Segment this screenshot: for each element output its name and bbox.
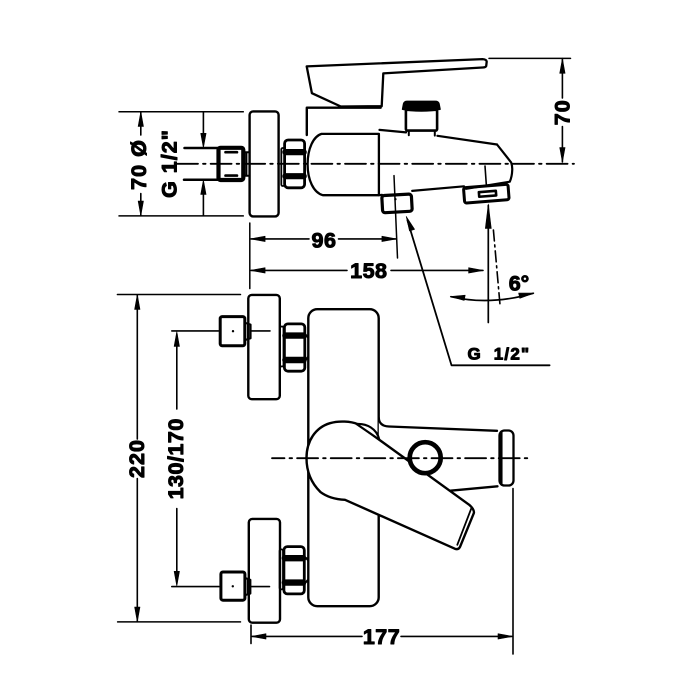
body bottom edge (side view) [379,186,464,195]
dimension 96: extension lines [249,223,251,289]
screw S1: upper eccentric union head [220,317,245,346]
leader for G 1/2 shower outlet [408,221,550,366]
dimension 158: dimension line with arrows [251,269,483,271]
dimension G 1/2 (wall pipe): arrows at pipe [202,112,204,216]
body: cartridge dome (side view) [308,134,379,195]
dimension 177: dimension line with arrows [252,635,512,637]
wire: internal outlet edge above tub boss [485,166,486,184]
dimension 130/170: dimension line with arrows [176,334,178,584]
inlet boss bump behind nut N3 [307,336,313,359]
collar between nut N1 and flange [244,152,250,176]
handle: lever and hub (front view) [307,422,474,550]
dimension 220: extension lines [117,295,240,622]
svg-text:96: 96 [312,229,337,253]
screw S2: lower eccentric union head [221,572,245,600]
svg-text:6°: 6° [509,272,530,296]
dimension 220: dimension line with arrows [136,295,138,622]
foot: shower outlet boss (bold) [382,194,413,213]
diverter knob ring (front view) [410,442,441,473]
svg-text:70 Ø: 70 Ø [127,139,151,190]
svg-text:177: 177 [363,625,400,649]
flange F1: wall escutcheon (side view) [250,111,279,216]
svg-text:G 1/2": G 1/2" [157,129,181,198]
spout end cap (front view) [500,431,514,486]
washer of nut N4 [280,549,283,589]
spout nose (side view) [466,145,512,189]
handle tip end face line [457,509,471,545]
lever handle (side view) [307,59,487,106]
handle rear bump detail [357,424,380,440]
dimension 70 (height): extension line from lever tip [489,57,571,59]
svg-text:220: 220 [125,439,149,478]
dimension 130/170: reference lines [172,331,219,587]
angle arc 6 deg with arrows [451,293,533,300]
svg-text:130/170: 130/170 [164,418,188,499]
dimension 70 dia: extension lines [119,112,243,216]
body: main vertical body plate (front view) [308,309,378,606]
collar of screw S1 [245,323,250,340]
inlet boss bump behind nut N4 [307,558,313,581]
body top edge right of knob to spout [437,136,497,145]
diverter knob black cap (side view) [402,101,440,111]
body: housing top edge (side view) [307,108,381,135]
diverter knob body (side view) [406,110,437,131]
dimension 70 dia: dimension line with arrows [140,112,142,216]
nut N3: upper inlet nut (front view) [284,324,304,371]
washer of nut N2 [281,148,284,186]
foot: tub outlet boss (bold, tilted 6deg) [463,184,509,203]
svg-text:70: 70 [550,99,574,125]
dimension 70 (height): dimension line with arrows [561,59,563,162]
tub outlet axis: vertical reference line with arrow [487,206,489,323]
body top edge left of knob [380,130,407,133]
flange F3: lower wall escutcheon (front view) [249,519,280,623]
nut N1: wall union nut (side view, bold) [219,148,244,180]
spout (front view) [379,418,500,497]
dimension 96: dimension line with arrows [251,238,396,240]
nut N4: lower inlet nut (front view) [284,547,304,594]
nut N2: connection nut right of flange (side view) [285,140,305,188]
flange F2: upper wall escutcheon (front view) [248,295,279,399]
svg-text:G 1/2": G 1/2" [468,344,531,363]
svg-text:158: 158 [350,259,387,283]
centerline (top figure axis) [177,163,574,165]
wire: inlet pipe stub (top view) [184,148,219,180]
washer of nut N3 [280,327,283,367]
tub outlet axis: tilted dash-dot line (6 deg) [493,230,500,307]
dimension 177: extension lines [251,489,513,655]
centerline (bottom figure axis) [272,457,532,459]
collar of screw S2 [245,578,250,595]
